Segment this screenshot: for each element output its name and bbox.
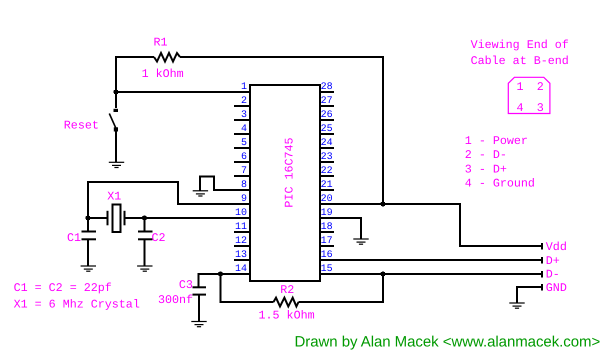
svg-text:21: 21	[321, 180, 333, 191]
terminal tick D+	[541, 257, 543, 264]
wire pin 7 stub	[234, 175, 250, 177]
wire pin 20 to Vdd	[320, 204, 542, 246]
svg-text:19: 19	[321, 208, 333, 219]
svg-text:GND: GND	[546, 281, 567, 295]
ground under C2	[137, 266, 152, 271]
svg-text:Viewing End of: Viewing End of	[471, 38, 569, 52]
svg-text:X1 = 6 Mhz Crystal: X1 = 6 Mhz Crystal	[14, 298, 140, 312]
svg-text:R1: R1	[154, 36, 168, 50]
wire from R1 right to pin20 node	[180, 57, 383, 204]
svg-text:Cable at B-end: Cable at B-end	[471, 54, 569, 68]
pin numbers blue	[235, 82, 247, 275]
capacitor C3	[193, 287, 207, 321]
USB connector outline	[508, 77, 550, 113]
wire pin 27 stub	[320, 105, 334, 107]
svg-text:1 - Power: 1 - Power	[465, 134, 528, 148]
wire from R1 left to pin1 node	[116, 57, 154, 92]
wire pin 13 stub	[234, 259, 250, 261]
svg-text:2 - D-: 2 - D-	[465, 148, 507, 162]
svg-text:16: 16	[321, 250, 333, 261]
capacitor C1	[82, 218, 97, 266]
wire pin 16 to D+	[320, 259, 542, 261]
svg-text:C2: C2	[152, 231, 166, 245]
terminal tick D-	[541, 271, 543, 278]
reset switch	[109, 109, 118, 132]
svg-text:1: 1	[517, 80, 524, 94]
node crystal right	[142, 215, 147, 220]
svg-text:300nf: 300nf	[158, 293, 193, 307]
node pin20 Vdd	[380, 201, 385, 206]
ground under C3	[191, 322, 206, 327]
wire pin 17 stub	[320, 245, 334, 247]
wire pin 24 stub	[320, 147, 334, 149]
wire pin 23 stub	[320, 161, 334, 163]
svg-text:20: 20	[321, 194, 333, 205]
svg-text:4: 4	[241, 124, 247, 135]
wire pin 21 stub	[320, 189, 334, 191]
resistor R1	[154, 53, 180, 62]
svg-text:3 - D+: 3 - D+	[465, 162, 507, 176]
node pin15 D-	[380, 271, 385, 276]
svg-text:C1: C1	[67, 231, 81, 245]
svg-text:D+: D+	[546, 254, 560, 268]
svg-text:11: 11	[235, 222, 247, 233]
node pin1/reset	[113, 89, 118, 94]
wire GND terminal	[517, 287, 542, 303]
ground at GND terminal	[509, 303, 524, 308]
wire pin 26 stub	[320, 119, 334, 121]
svg-text:14: 14	[235, 264, 247, 275]
svg-text:X1: X1	[107, 190, 121, 204]
svg-text:24: 24	[321, 138, 333, 149]
wire pin 15 to D-	[320, 273, 542, 275]
svg-text:7: 7	[241, 166, 247, 177]
wire pin 12 stub	[234, 245, 250, 247]
wire pin 6 stub	[234, 161, 250, 163]
op IC body PIC 16C745	[250, 85, 320, 281]
node pin14	[218, 271, 223, 276]
svg-text:Vdd: Vdd	[546, 240, 567, 254]
svg-text:28: 28	[321, 82, 333, 93]
svg-text:C3: C3	[179, 278, 193, 292]
wire pin 5 stub	[234, 147, 250, 149]
terminal tick GND	[541, 284, 543, 291]
svg-text:18: 18	[321, 222, 333, 233]
svg-text:17: 17	[321, 236, 333, 247]
svg-text:5: 5	[241, 138, 247, 149]
wire pin 2 stub	[234, 105, 250, 107]
svg-text:1.5 kOhm: 1.5 kOhm	[259, 309, 315, 323]
svg-text:27: 27	[321, 96, 333, 107]
svg-text:22: 22	[321, 166, 333, 177]
wire pin 14 to C3	[199, 274, 251, 287]
terminal tick Vdd	[541, 243, 543, 250]
crystal X1	[108, 205, 125, 233]
wire reset switch bottom	[115, 131, 117, 162]
wire pin 22 stub	[320, 175, 334, 177]
wire pin 28 stub	[320, 91, 334, 93]
wire pin 11 stub	[234, 231, 250, 233]
svg-text:10: 10	[235, 208, 247, 219]
svg-text:2: 2	[241, 96, 247, 107]
svg-text:25: 25	[321, 124, 333, 135]
wire crystal right / pin 10	[125, 217, 251, 219]
resistor R2	[274, 298, 299, 307]
svg-text:4 - Ground: 4 - Ground	[465, 177, 535, 191]
wire pin 4 stub	[234, 133, 250, 135]
svg-text:4: 4	[517, 101, 524, 115]
wire pin 19 to ground	[320, 218, 361, 239]
wire pin 3 stub	[234, 119, 250, 121]
svg-text:23: 23	[321, 152, 333, 163]
svg-text:R2: R2	[280, 283, 294, 297]
wire pin 25 stub	[320, 133, 334, 135]
wire pin 9 to crystal left	[88, 182, 250, 218]
svg-text:C1 = C2 = 22pf: C1 = C2 = 22pf	[14, 281, 112, 295]
svg-text:PIC 16C745: PIC 16C745	[282, 137, 296, 207]
labels magenta	[14, 36, 569, 323]
svg-text:D-: D-	[546, 268, 560, 282]
wire crystal left	[88, 217, 108, 219]
svg-text:9: 9	[241, 194, 247, 205]
ground at pin 19	[353, 239, 368, 244]
svg-text:3: 3	[241, 110, 247, 121]
wire pin 18 stub	[320, 231, 334, 233]
svg-text:26: 26	[321, 110, 333, 121]
wire reset switch top	[115, 92, 117, 108]
svg-text:6: 6	[241, 152, 247, 163]
wire pin 8 to ground bump	[200, 177, 250, 191]
capacitor C2	[138, 218, 153, 266]
svg-text:Reset: Reset	[64, 119, 99, 133]
svg-text:3: 3	[537, 101, 544, 115]
node crystal left	[85, 215, 90, 220]
svg-text:Drawn by Alan Macek <www.alanm: Drawn by Alan Macek <www.alanmacek.com>	[295, 334, 601, 351]
wire pin 1	[116, 91, 250, 93]
svg-text:2: 2	[537, 80, 544, 94]
svg-text:13: 13	[235, 250, 247, 261]
wire R2 right to D- node	[299, 274, 384, 302]
ground under reset	[109, 162, 124, 167]
svg-text:1 kOhm: 1 kOhm	[142, 67, 184, 81]
svg-text:1: 1	[241, 82, 247, 93]
svg-text:15: 15	[321, 264, 333, 275]
ground at pin 8	[193, 191, 208, 196]
ground under C1	[81, 266, 96, 271]
wire pin14 node to R2	[221, 274, 274, 302]
svg-text:12: 12	[235, 236, 247, 247]
svg-text:8: 8	[241, 180, 247, 191]
